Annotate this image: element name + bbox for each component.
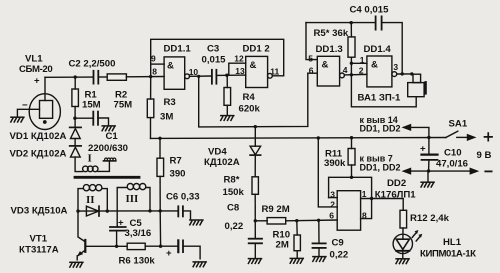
node R11 loop	[350, 176, 353, 179]
wire VD4-R8-C8	[254, 155, 256, 177]
wire base to R6	[85, 245, 127, 247]
wire R7 leads	[159, 138, 161, 158]
svg-text:VT1: VT1	[30, 233, 48, 244]
svg-text:3: 3	[330, 189, 335, 199]
wire R3 leads	[150, 77, 152, 99]
node R5 top	[350, 21, 353, 24]
svg-text:10: 10	[189, 67, 199, 77]
svg-text:2200/630: 2200/630	[88, 143, 128, 154]
diode VD4	[254, 127, 256, 147]
resistor R8 body	[252, 177, 258, 195]
svg-text:КИПМ01А-1К: КИПМ01А-1К	[420, 249, 476, 260]
node R10 top	[295, 219, 298, 222]
wire R7 line down	[159, 211, 161, 246]
capacitor C3	[211, 70, 213, 84]
svg-text:390k: 390k	[324, 158, 346, 169]
wire tube cathode left	[17, 109, 39, 117]
svg-text:4: 4	[343, 65, 348, 75]
wire R1 leads	[74, 77, 76, 89]
ground R4	[221, 116, 234, 121]
resistor R7 body	[157, 158, 164, 176]
node C9 top	[317, 219, 320, 222]
wire R4 leads	[226, 75, 228, 87]
svg-text:DD1.3: DD1.3	[316, 44, 343, 55]
capacitor C1	[75, 117, 93, 119]
wire pin1 to R12	[361, 199, 404, 211]
wire DD2 feedback loop	[329, 177, 372, 198]
svg-text:11: 11	[270, 67, 279, 77]
wire DD1.4 out	[397, 73, 413, 75]
svg-text:R7: R7	[170, 155, 182, 166]
transformer core	[75, 176, 139, 179]
node R9 left	[254, 219, 257, 222]
wire VD2 down to winding I	[75, 157, 83, 172]
op DD1.4 output circle	[392, 72, 397, 77]
svg-text:9: 9	[151, 54, 156, 64]
svg-text:8: 8	[362, 211, 367, 221]
wire R11 leads	[351, 138, 353, 149]
op DD1.2 output circle	[268, 73, 273, 78]
wire R6 to C7 node	[145, 245, 177, 247]
wire pin1-pin2 tie and buzzer return	[351, 63, 416, 107]
svg-text:620k: 620k	[239, 104, 261, 115]
node pin1/loop	[370, 197, 373, 200]
ground C6	[190, 220, 203, 225]
svg-text:III: III	[126, 193, 139, 205]
capacitor C4	[375, 16, 377, 29]
svg-text:КТ3117А: КТ3117А	[19, 244, 59, 255]
wire pin1	[351, 62, 367, 64]
svg-text:DD1 2: DD1 2	[243, 44, 270, 55]
node C1 junction	[73, 117, 76, 120]
svg-text:C1: C1	[106, 131, 119, 142]
node pin2 DD1.4	[350, 73, 353, 76]
svg-text:150k: 150k	[223, 187, 245, 198]
svg-text:DD1.1: DD1.1	[164, 44, 192, 55]
op DD1.4 box	[367, 56, 392, 87]
winding HV open-end symbol	[103, 160, 115, 162]
svg-text:C4 0,015: C4 0,015	[350, 5, 390, 16]
wire negative rail	[406, 170, 472, 172]
node pin1 DD1.4	[350, 62, 353, 65]
capacitor C7 (electrolytic)	[177, 240, 179, 252]
svg-text:390: 390	[170, 168, 186, 179]
minus supply	[485, 170, 491, 172]
wire pin6 stub	[308, 72, 318, 74]
svg-text:+: +	[166, 248, 172, 259]
svg-text:&: &	[167, 61, 174, 72]
svg-text:HL1: HL1	[443, 237, 462, 248]
node A junction R1/rail	[74, 75, 77, 78]
diode VD2	[70, 145, 81, 147]
svg-text:0,22: 0,22	[330, 250, 349, 261]
svg-text:1: 1	[360, 55, 365, 65]
op DD1.2 box	[246, 56, 268, 87]
plus supply	[485, 133, 493, 141]
capacitor C2	[93, 71, 95, 84]
LED HL1 triangle	[396, 239, 409, 249]
node R6/R7 junction	[159, 245, 162, 248]
svg-text:R9 2M: R9 2M	[262, 204, 290, 215]
wire C3 to DD1.2	[216, 74, 245, 76]
svg-text:75M: 75M	[114, 100, 133, 111]
capacitor C9	[318, 220, 320, 243]
transistor VT1 base bar	[84, 240, 86, 252]
wire R10 leads	[296, 221, 298, 235]
resistor R11 body	[348, 149, 355, 166]
svg-text:C9: C9	[332, 238, 344, 249]
svg-text:C6 0,33: C6 0,33	[166, 192, 200, 203]
LED HL1 circle	[393, 234, 412, 253]
svg-text:R12 2,4k: R12 2,4k	[410, 213, 450, 224]
svg-text:C2 2,2/500: C2 2,2/500	[69, 59, 116, 70]
buzzer BA1	[413, 74, 421, 82]
svg-text:I: I	[88, 152, 92, 164]
node pin2 branch	[317, 136, 320, 139]
node C6 junction	[159, 209, 162, 212]
node C5 bottom	[115, 245, 118, 248]
wire collector bus y=211	[78, 210, 160, 212]
svg-text:C10: C10	[444, 148, 462, 159]
node R11 rail	[350, 136, 353, 139]
diode VD3	[86, 206, 98, 216]
LED HL1 cathode bar	[396, 250, 409, 252]
op DD1.1 box	[164, 57, 185, 89]
wire pin3	[329, 197, 338, 199]
svg-text:2M: 2M	[276, 240, 289, 251]
svg-text:DD1, DD2: DD1, DD2	[360, 163, 401, 173]
ground HL1	[396, 259, 409, 264]
svg-text:6: 6	[309, 65, 314, 75]
svg-text:15M: 15M	[82, 100, 101, 111]
wire R2 to DD1.1 input node	[126, 76, 164, 78]
svg-text:−: −	[22, 100, 28, 111]
svg-text:SA1: SA1	[449, 118, 468, 129]
wire C4 to DD1.4 out	[382, 23, 403, 74]
svg-text:ВА1 ЗП-1: ВА1 ЗП-1	[358, 93, 401, 104]
switch SA1	[446, 131, 458, 137]
wire R9 wires	[255, 220, 267, 222]
svg-text:3: 3	[393, 62, 398, 72]
op DD1.3 output circle	[340, 73, 345, 78]
svg-text:VD2 КД102А: VD2 КД102А	[10, 149, 67, 160]
svg-text:II: II	[86, 194, 95, 206]
wire pin5 from osc top	[306, 23, 317, 60]
svg-text:+: +	[118, 217, 124, 228]
tube VL1 cathode dot	[43, 120, 47, 124]
resistor R2 body	[107, 74, 126, 80]
node winding II left	[76, 209, 79, 212]
capacitor C5 (electrolytic)	[116, 226, 118, 227]
svg-text:6: 6	[329, 211, 334, 221]
svg-text:DD2: DD2	[387, 178, 406, 189]
wire main HV rail	[45, 76, 93, 78]
svg-text:VL1: VL1	[25, 53, 43, 64]
wire feedback loop DD1.1-DD1.2	[151, 39, 284, 76]
svg-text:C8: C8	[227, 203, 240, 214]
node winding II right	[106, 209, 109, 212]
wire DD1.3 out to DD1.4	[344, 73, 367, 76]
svg-text:DD1, DD2: DD1, DD2	[360, 123, 401, 133]
svg-text:VD1 КД102А: VD1 КД102А	[10, 131, 67, 142]
svg-text:47,0/16: 47,0/16	[436, 159, 468, 170]
tube VL1 ellipse	[29, 94, 60, 130]
svg-text:9 В: 9 В	[477, 150, 492, 161]
svg-text:+: +	[420, 144, 426, 155]
ground C1	[102, 126, 115, 131]
capacitor C8	[249, 238, 262, 240]
wire pin9	[151, 63, 164, 65]
svg-text:C3: C3	[207, 44, 219, 55]
resistor R12 body	[400, 210, 407, 228]
LED HL1 lead out	[402, 251, 404, 259]
svg-text:2: 2	[359, 66, 364, 76]
wire tube anode up to rail	[44, 77, 46, 100]
transformer winding I	[83, 166, 89, 172]
resistor R1 body	[72, 89, 79, 107]
resistor R5 body	[348, 37, 355, 57]
ground negative rail	[427, 171, 429, 182]
svg-text:0,22: 0,22	[225, 221, 244, 232]
resistor R9 body	[267, 218, 286, 224]
node branch top	[197, 75, 200, 78]
svg-text:&: &	[322, 60, 329, 71]
node buzzer top	[410, 72, 413, 75]
wire DD1.1 out to C3	[190, 75, 212, 77]
svg-text:&: &	[250, 60, 257, 71]
svg-text:2: 2	[330, 199, 335, 209]
svg-text:+: +	[34, 76, 40, 87]
LED HL1 lead in	[402, 228, 404, 239]
capacitor C10 (electrolytic)	[428, 138, 430, 155]
node VD4 top	[254, 125, 257, 128]
wire pin8 tie	[361, 199, 372, 219]
LED emission arrows	[412, 232, 416, 237]
node winding III right	[148, 209, 151, 212]
svg-text:DD1.4: DD1.4	[364, 44, 392, 55]
diode VD1	[70, 126, 81, 128]
svg-text:3,3/16: 3,3/16	[125, 228, 152, 239]
chip DD2 box	[337, 191, 360, 231]
wire DD1.1 out branch down	[199, 73, 308, 127]
wire R5 leads	[350, 23, 352, 37]
node supply rail/C10	[427, 136, 430, 139]
wire winding I to HV end	[98, 161, 110, 171]
svg-text:0,015: 0,015	[202, 55, 227, 66]
svg-text:12: 12	[234, 54, 244, 64]
svg-text:СБМ-20: СБМ-20	[19, 64, 52, 75]
wire VD1 to VD2	[74, 139, 76, 146]
node R7 top	[158, 137, 161, 140]
wire detector rail y=138	[151, 137, 446, 140]
ground tube	[11, 117, 24, 122]
svg-text:К176ЛП1: К176ЛП1	[375, 190, 416, 201]
ground C7	[193, 262, 206, 267]
resistor R3 body	[147, 99, 154, 118]
ground R10	[290, 258, 303, 263]
transistor VT1 collector wire	[78, 211, 85, 241]
capacitor C6	[160, 210, 178, 212]
ground C8	[248, 259, 261, 264]
transformer winding II	[83, 185, 89, 191]
node pin13/R4	[225, 74, 228, 77]
node input junction	[149, 75, 152, 78]
svg-text:R5* 36k: R5* 36k	[314, 28, 349, 39]
svg-text:КД102А: КД102А	[204, 157, 240, 168]
ground VT1 emitter	[70, 262, 83, 267]
wire DD2 pin2 branch from rail	[318, 138, 337, 207]
wire k vyv 14 arrow branch	[406, 127, 429, 137]
tube VL1 inner electrode rect	[40, 101, 53, 119]
wire osc top rail	[306, 22, 376, 24]
wire pin12 branch	[227, 63, 246, 75]
svg-text:3M: 3M	[160, 112, 173, 123]
svg-text:R8*: R8*	[224, 175, 240, 186]
svg-text:R6 130k: R6 130k	[119, 255, 156, 266]
svg-text:8: 8	[152, 67, 157, 77]
node negative rail	[427, 169, 430, 172]
ground C9	[313, 257, 326, 262]
transistor VT1 emitter	[78, 250, 85, 255]
op DD1.1 output circle	[185, 74, 190, 79]
svg-text:VD3 КД510А: VD3 КД510А	[11, 205, 68, 216]
svg-text:VD4: VD4	[208, 147, 227, 158]
svg-text:5: 5	[308, 53, 313, 63]
node C4 branch	[401, 72, 404, 75]
svg-text:1: 1	[362, 189, 367, 199]
resistor R4 body	[224, 88, 231, 106]
resistor R6 body	[127, 243, 145, 249]
svg-text:R3: R3	[164, 97, 176, 108]
wire C2 to R2	[98, 76, 107, 78]
transformer winding III	[127, 184, 133, 190]
svg-text:&: &	[371, 59, 378, 70]
svg-text:13: 13	[235, 66, 245, 76]
svg-text:R4: R4	[243, 92, 256, 103]
op DD1.3 box	[317, 56, 339, 86]
resistor R10 body	[294, 235, 300, 251]
